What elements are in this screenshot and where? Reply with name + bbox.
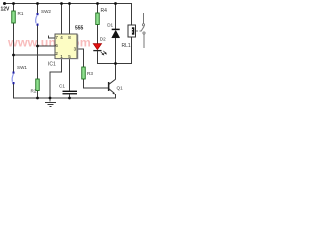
svg-text:SW2: SW2 xyxy=(41,9,51,14)
svg-text:D2: D2 xyxy=(100,37,106,42)
svg-text:R2: R2 xyxy=(31,89,37,94)
svg-text:555: 555 xyxy=(75,26,84,32)
svg-text:SW1: SW1 xyxy=(17,65,27,70)
svg-text:R3: R3 xyxy=(87,71,93,76)
svg-text:IC1: IC1 xyxy=(48,62,56,68)
svg-text:R1: R1 xyxy=(18,11,24,16)
svg-text:R4: R4 xyxy=(101,8,108,14)
svg-text:12V: 12V xyxy=(1,7,11,13)
svg-text:D1: D1 xyxy=(107,23,113,28)
svg-text:Q1: Q1 xyxy=(117,86,124,91)
svg-text:RL1: RL1 xyxy=(122,43,131,49)
svg-text:C1: C1 xyxy=(59,84,65,89)
